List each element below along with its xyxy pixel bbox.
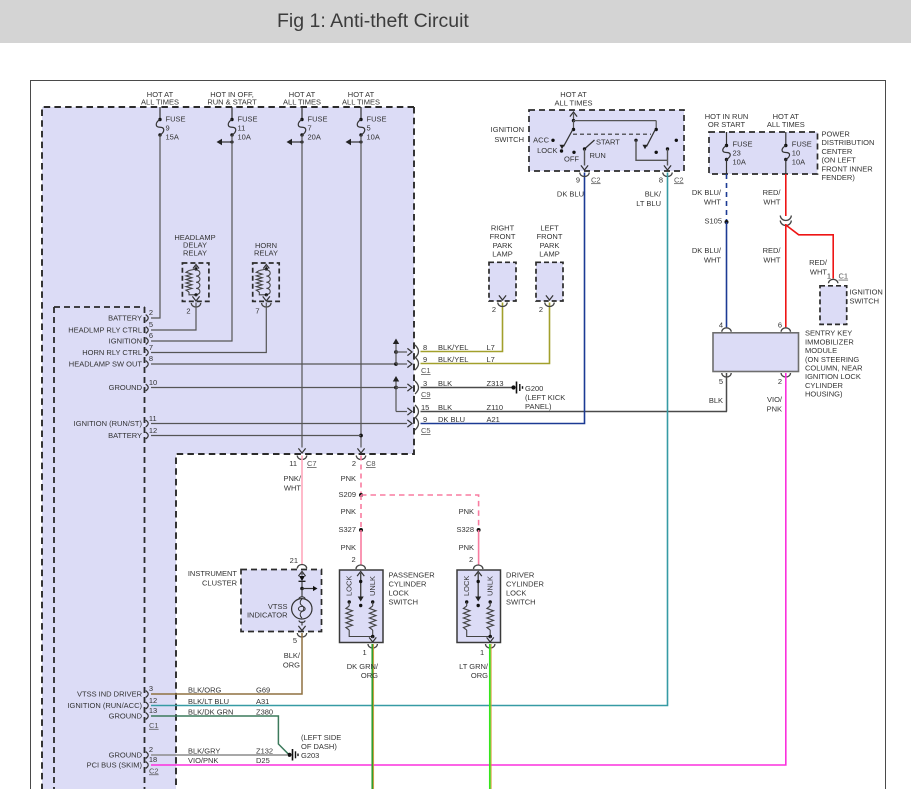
BCM pin 13 GROUND (C1) xyxy=(146,713,149,720)
svg-text:PCI BUS (SKIM): PCI BUS (SKIM) xyxy=(87,761,143,770)
svg-text:2: 2 xyxy=(149,308,153,317)
relay pin 2 connector xyxy=(191,303,200,307)
svg-text:11: 11 xyxy=(289,459,297,468)
svg-text:DK BLU/: DK BLU/ xyxy=(692,246,722,255)
svg-text:C9: C9 xyxy=(421,390,431,399)
svg-text:WHT: WHT xyxy=(763,198,780,207)
BCM pin 2 BATTERY xyxy=(146,315,149,322)
svg-text:DK BLU: DK BLU xyxy=(557,189,584,198)
svg-text:CYLINDER: CYLINDER xyxy=(805,381,844,390)
wire RED/WHT branch to ignition lock cylinder xyxy=(786,225,833,279)
svg-text:ALL TIMES: ALL TIMES xyxy=(555,98,593,107)
svg-text:CYLINDER: CYLINDER xyxy=(506,579,545,588)
svg-text:RED/: RED/ xyxy=(809,258,828,267)
svg-text:WHT: WHT xyxy=(704,198,721,207)
svg-text:OFF: OFF xyxy=(564,155,579,164)
passenger cylinder lock switch xyxy=(340,570,384,643)
svg-text:ALL TIMES: ALL TIMES xyxy=(283,98,321,107)
svg-text:BLK: BLK xyxy=(709,396,723,405)
fuse 7 20A xyxy=(301,107,303,120)
BCM pin 11 IGNITION (RUN/ST) xyxy=(146,420,149,427)
svg-text:3: 3 xyxy=(149,684,153,693)
svg-text:SENTRY KEY: SENTRY KEY xyxy=(805,329,852,338)
ignition switch internal wiring xyxy=(572,119,575,122)
svg-text:PNK: PNK xyxy=(341,507,356,516)
svg-text:IGNITION: IGNITION xyxy=(109,337,142,346)
svg-text:RIGHT: RIGHT xyxy=(491,223,515,232)
BCM pin 3 VTSS IND DRIVER xyxy=(146,691,149,698)
wire BLK/YEL right park lamp xyxy=(421,303,503,352)
sentry key immobilizer module xyxy=(713,333,799,372)
svg-text:PNK: PNK xyxy=(459,543,474,552)
svg-text:7: 7 xyxy=(255,306,259,315)
svg-text:RUN: RUN xyxy=(590,151,606,160)
svg-text:S105: S105 xyxy=(704,217,722,226)
svg-text:7: 7 xyxy=(149,343,153,352)
wire PNK S209 to S328 (dashed) xyxy=(361,495,479,529)
svg-text:LT BLU: LT BLU xyxy=(636,199,661,208)
svg-text:VIO/: VIO/ xyxy=(767,395,783,404)
svg-text:LAMP: LAMP xyxy=(539,249,559,258)
wire fuse 7 to connector C7 xyxy=(301,135,303,448)
svg-text:23: 23 xyxy=(733,149,741,158)
sentry pin 6 xyxy=(781,328,790,332)
svg-text:C1: C1 xyxy=(421,366,431,375)
wire IGNITION (RUN/ST) to connector C5 xyxy=(151,423,407,425)
svg-text:HORN RLY CTRL: HORN RLY CTRL xyxy=(82,348,142,357)
connector row 9 BLK/YEL L7 (C1) xyxy=(415,357,419,370)
svg-text:ORG: ORG xyxy=(361,671,378,680)
wire HEADLAMP SW OUT to connectors 8 and 9 xyxy=(151,363,396,365)
wire DK BLU/WHT S105 to sentry pin 4 xyxy=(726,222,728,327)
svg-text:POWER: POWER xyxy=(822,130,851,139)
svg-text:2: 2 xyxy=(469,555,473,564)
svg-text:1: 1 xyxy=(480,648,484,657)
sentry pin 2 xyxy=(781,373,790,377)
svg-text:HEADLAMP SW OUT: HEADLAMP SW OUT xyxy=(69,360,143,369)
wire PNK S209 to S327 (dashed) xyxy=(360,495,362,529)
svg-text:FENDER): FENDER) xyxy=(822,173,856,182)
svg-text:WHT: WHT xyxy=(763,256,780,265)
svg-text:1: 1 xyxy=(363,648,367,657)
svg-text:VTSS: VTSS xyxy=(268,602,288,611)
ignition switch (lock cylinder) xyxy=(820,286,847,325)
wire BATTERY pin12 to fuse 5 xyxy=(151,435,361,437)
svg-text:10A: 10A xyxy=(367,133,380,142)
wire BLK/DK GRN Z380 to G203 xyxy=(151,716,289,755)
title bar xyxy=(0,0,911,43)
svg-text:(LEFT KICK: (LEFT KICK xyxy=(525,393,565,402)
svg-text:C1: C1 xyxy=(149,721,159,730)
svg-text:PNK/: PNK/ xyxy=(283,474,301,483)
wire GROUND pin10 to connectors 3 and 15 xyxy=(151,387,396,389)
contact ACC xyxy=(551,139,554,142)
svg-text:LOCK: LOCK xyxy=(506,588,526,597)
power distribution center xyxy=(709,132,818,174)
svg-text:PNK: PNK xyxy=(341,474,356,483)
svg-text:RELAY: RELAY xyxy=(254,249,278,258)
svg-text:UNLK: UNLK xyxy=(486,576,495,596)
BCM pin 5 HEADLMP RLY CTRL xyxy=(146,327,149,334)
svg-text:S209: S209 xyxy=(338,490,356,499)
splice S327 xyxy=(359,528,363,532)
BCM pin 6 IGNITION xyxy=(146,338,149,345)
svg-text:RED/: RED/ xyxy=(763,246,782,255)
branch arrow fuse 11 xyxy=(218,141,232,143)
svg-text:8: 8 xyxy=(149,354,153,363)
wire BLK/ORG cluster pin5 to VTSS IND DRIVER xyxy=(151,633,302,694)
wire fuse 11 to IGNITION pin 6 xyxy=(151,135,232,341)
svg-text:G69: G69 xyxy=(256,686,270,695)
svg-text:FUSE: FUSE xyxy=(308,115,328,124)
svg-text:21: 21 xyxy=(290,556,298,565)
svg-text:WHT: WHT xyxy=(284,484,301,493)
BCM pin 2 GROUND xyxy=(146,752,149,759)
svg-text:4: 4 xyxy=(719,320,723,329)
wire fuse 5 to connector C8 xyxy=(360,135,362,448)
splice S328 xyxy=(477,528,481,532)
svg-text:10A: 10A xyxy=(792,158,805,167)
svg-text:A31: A31 xyxy=(256,697,269,706)
VTSS indicator xyxy=(298,572,305,577)
fuse 5 10A xyxy=(360,107,362,120)
svg-text:INSTRUMENT: INSTRUMENT xyxy=(188,569,238,578)
svg-text:6: 6 xyxy=(149,331,153,340)
svg-text:C2: C2 xyxy=(674,175,684,184)
svg-text:SWITCH: SWITCH xyxy=(506,597,536,606)
svg-text:LEFT: LEFT xyxy=(540,223,559,232)
svg-text:BATTERY: BATTERY xyxy=(108,431,142,440)
BCM pin 12 BATTERY xyxy=(146,432,149,439)
svg-text:FRONT: FRONT xyxy=(537,232,563,241)
svg-text:START: START xyxy=(596,138,620,147)
svg-text:RELAY: RELAY xyxy=(183,248,207,257)
connector row 15 BLK Z110 xyxy=(415,405,419,418)
svg-text:10A: 10A xyxy=(733,158,746,167)
svg-text:GROUND: GROUND xyxy=(109,712,143,721)
svg-text:5: 5 xyxy=(149,320,153,329)
svg-text:9: 9 xyxy=(166,124,170,133)
contact LOCK xyxy=(560,149,563,152)
svg-text:D25: D25 xyxy=(256,756,270,765)
horn relay pin 7 connector xyxy=(262,303,271,307)
wire BLK sentry pin5 to Z110 xyxy=(726,373,728,412)
svg-text:7: 7 xyxy=(308,124,312,133)
driver cylinder lock switch xyxy=(457,570,501,643)
svg-text:VTSS IND DRIVER: VTSS IND DRIVER xyxy=(77,690,143,699)
svg-text:G203: G203 xyxy=(301,751,319,760)
svg-text:C1: C1 xyxy=(839,272,849,281)
fuse 9 15A xyxy=(159,107,161,120)
svg-text:FRONT: FRONT xyxy=(490,232,516,241)
svg-text:FUSE: FUSE xyxy=(792,140,812,149)
svg-text:6: 6 xyxy=(778,320,782,329)
svg-text:5: 5 xyxy=(719,377,723,386)
wire BLK/GRY Z132 to G203 xyxy=(151,754,287,756)
ignition switch pin 8 connector C2 xyxy=(663,173,672,177)
wire BLK/YEL left park lamp xyxy=(421,303,550,364)
wire DK BLU A21 to ignition switch pin 9 xyxy=(421,173,585,424)
svg-text:CLUSTER: CLUSTER xyxy=(202,579,238,588)
svg-text:LAMP: LAMP xyxy=(492,249,512,258)
svg-text:ORG: ORG xyxy=(471,671,488,680)
junction block (dashed enclosure) xyxy=(42,107,414,454)
svg-text:C2: C2 xyxy=(591,175,601,184)
svg-text:OR START: OR START xyxy=(708,120,746,129)
svg-text:DRIVER: DRIVER xyxy=(506,570,535,579)
svg-text:LOCK: LOCK xyxy=(462,576,471,596)
svg-text:WHT: WHT xyxy=(704,256,721,265)
wire LT GRN/ORG driver switch pin 1 xyxy=(490,644,492,789)
svg-text:5: 5 xyxy=(293,636,297,645)
svg-text:PASSENGER: PASSENGER xyxy=(389,570,436,579)
right contacts xyxy=(634,139,637,142)
svg-text:11: 11 xyxy=(149,414,157,423)
svg-text:LOCK: LOCK xyxy=(537,146,557,155)
connector C8 pin 2 xyxy=(356,456,365,460)
svg-text:MODULE: MODULE xyxy=(805,346,837,355)
svg-text:HOUSING): HOUSING) xyxy=(805,390,843,399)
svg-text:OF DASH): OF DASH) xyxy=(301,742,337,751)
inline connector on RED/WHT xyxy=(780,216,791,226)
fuse 23 10A xyxy=(726,132,728,146)
svg-text:15A: 15A xyxy=(166,133,179,142)
svg-text:ACC: ACC xyxy=(533,136,549,145)
svg-text:FRONT INNER: FRONT INNER xyxy=(822,164,874,173)
svg-text:9: 9 xyxy=(576,175,580,184)
svg-text:IGNITION (RUN/ST): IGNITION (RUN/ST) xyxy=(74,419,143,428)
svg-text:BLK/ORG: BLK/ORG xyxy=(188,686,222,695)
svg-text:GROUND: GROUND xyxy=(109,751,143,760)
right lever xyxy=(647,130,656,147)
svg-text:5: 5 xyxy=(367,124,371,133)
contact START / RUN xyxy=(585,140,595,149)
wire BLK Z313 to G200 xyxy=(421,387,513,389)
svg-text:BLK/LT BLU: BLK/LT BLU xyxy=(188,697,229,706)
svg-text:DK BLU/: DK BLU/ xyxy=(692,188,722,197)
ignition switch pin 9 connector C2 xyxy=(580,173,589,177)
svg-text:C8: C8 xyxy=(366,459,376,468)
wire BLK/LT BLU pin8 to BCM IGNITION (RUN/ACC) xyxy=(151,173,668,706)
svg-text:RUN & START: RUN & START xyxy=(207,98,257,107)
wire VIO/PNK sentry pin2 to PCI BUS (SKIM) xyxy=(151,373,786,765)
wire PNK/WHT C7 to instrument cluster pin 21 xyxy=(301,456,303,565)
svg-text:IGNITION: IGNITION xyxy=(491,125,524,134)
ground G200 xyxy=(511,385,515,389)
svg-text:2: 2 xyxy=(186,306,190,315)
svg-text:BLK/: BLK/ xyxy=(645,189,662,198)
svg-text:C5: C5 xyxy=(421,426,431,435)
svg-text:13: 13 xyxy=(149,706,157,715)
svg-text:S328: S328 xyxy=(456,525,474,534)
cluster pin 5 xyxy=(297,633,306,637)
svg-text:RED/: RED/ xyxy=(763,188,782,197)
wire headlamp relay pin2 to HEADLMP RLY CTRL xyxy=(151,303,196,331)
ground G203 xyxy=(287,753,291,757)
connector row 8 BLK/YEL L7 xyxy=(415,345,419,358)
left lever (LOCK) xyxy=(564,130,573,147)
connector row 3 BLK Z313 (C9) xyxy=(415,381,419,394)
fuse 11 10A xyxy=(231,107,233,120)
wire horn relay pin7 to HORN RLY CTRL xyxy=(151,303,266,353)
branch arrow fuse 5 xyxy=(347,141,361,143)
contact OFF xyxy=(572,151,575,154)
svg-text:IGNITION LOCK: IGNITION LOCK xyxy=(805,372,861,381)
svg-text:(ON STEERING: (ON STEERING xyxy=(805,355,859,364)
sentry pin 4 xyxy=(722,328,731,332)
svg-text:INDICATOR: INDICATOR xyxy=(247,611,288,620)
svg-text:HEADLMP RLY CTRL: HEADLMP RLY CTRL xyxy=(68,326,142,335)
svg-text:G200: G200 xyxy=(525,384,543,393)
fuse 10 10A xyxy=(785,132,787,146)
svg-text:UNLK: UNLK xyxy=(368,576,377,596)
cluster pin 21 xyxy=(297,565,306,569)
wire RED/WHT to sentry pin 6 xyxy=(785,224,787,327)
wire DK BLU/WHT fuse 23 to S105 (dashed) xyxy=(726,174,728,221)
svg-text:PNK: PNK xyxy=(341,543,356,552)
svg-text:FUSE: FUSE xyxy=(238,115,258,124)
svg-text:2: 2 xyxy=(778,377,782,386)
svg-text:PANEL): PANEL) xyxy=(525,402,552,411)
wire PNK S327 to passenger lock switch pin 2 xyxy=(360,530,362,565)
wire PNK S328 to driver lock switch pin 2 xyxy=(478,530,480,565)
connector C7 pin 11 xyxy=(297,456,306,460)
wire DK GRN/ORG passenger switch pin 1 xyxy=(373,644,375,789)
svg-text:WHT: WHT xyxy=(810,268,827,277)
svg-text:C2: C2 xyxy=(149,766,159,775)
BCM pin 8 HEADLAMP SW OUT xyxy=(146,361,149,368)
splice S209 xyxy=(359,493,363,497)
wire fuse 9 to BATTERY pin 2 xyxy=(151,135,160,318)
svg-text:S327: S327 xyxy=(338,525,356,534)
svg-text:DISTRIBUTION: DISTRIBUTION xyxy=(822,138,875,147)
svg-text:BATTERY: BATTERY xyxy=(108,314,142,323)
svg-text:(LEFT SIDE: (LEFT SIDE xyxy=(301,733,341,742)
svg-text:ALL TIMES: ALL TIMES xyxy=(141,98,179,107)
sentry pin 5 xyxy=(722,373,731,377)
svg-text:18: 18 xyxy=(149,755,157,764)
svg-text:SWITCH: SWITCH xyxy=(389,597,419,606)
svg-text:PNK: PNK xyxy=(767,405,782,414)
svg-text:GROUND: GROUND xyxy=(109,383,143,392)
svg-text:11: 11 xyxy=(238,124,246,133)
svg-text:ALL TIMES: ALL TIMES xyxy=(767,120,805,129)
splice S105 xyxy=(725,220,729,224)
right switch wire to pin 8 xyxy=(636,140,668,160)
svg-text:10: 10 xyxy=(149,378,157,387)
svg-text:PNK: PNK xyxy=(459,507,474,516)
wire BLK Z110 to sentry key module pin 5 xyxy=(421,411,728,413)
svg-text:2: 2 xyxy=(352,555,356,564)
svg-text:FUSE: FUSE xyxy=(733,140,753,149)
svg-text:20A: 20A xyxy=(308,133,321,142)
BCM pin 12 IGNITION (RUN/ACC) xyxy=(146,702,149,709)
svg-text:FUSE: FUSE xyxy=(166,115,186,124)
svg-text:VIO/PNK: VIO/PNK xyxy=(188,756,218,765)
svg-text:LT GRN/: LT GRN/ xyxy=(459,662,489,671)
svg-text:ORG: ORG xyxy=(283,661,300,670)
svg-text:12: 12 xyxy=(149,696,157,705)
svg-text:2: 2 xyxy=(492,305,496,314)
wire RUN to pin 9 xyxy=(584,149,586,166)
svg-text:FUSE: FUSE xyxy=(367,115,387,124)
svg-text:LOCK: LOCK xyxy=(389,588,409,597)
svg-text:DK GRN/: DK GRN/ xyxy=(347,662,379,671)
svg-text:COLUMN, NEAR: COLUMN, NEAR xyxy=(805,364,863,373)
svg-text:12: 12 xyxy=(149,426,157,435)
svg-text:SWITCH: SWITCH xyxy=(494,135,524,144)
BCM pin 7 HORN RLY CTRL xyxy=(146,349,149,356)
svg-text:C7: C7 xyxy=(307,459,317,468)
wire PNK C8 to S209 (dashed) xyxy=(360,456,362,495)
branch arrow fuse 7 xyxy=(288,141,302,143)
connector row 9 DK BLU A21 (C5) xyxy=(415,417,419,430)
svg-text:8: 8 xyxy=(659,175,663,184)
svg-text:LOCK: LOCK xyxy=(345,576,354,596)
svg-text:2: 2 xyxy=(352,459,356,468)
body control module (inner dashed box) xyxy=(54,307,145,789)
svg-text:2: 2 xyxy=(539,305,543,314)
junction fuse5 battery12 xyxy=(359,434,363,438)
BCM pin 18 PCI BUS (SKIM) (C2) xyxy=(146,762,149,769)
svg-text:BLK/: BLK/ xyxy=(284,651,301,660)
svg-text:ALL TIMES: ALL TIMES xyxy=(342,98,380,107)
svg-text:SWITCH: SWITCH xyxy=(850,296,880,305)
svg-text:IMMOBILIZER: IMMOBILIZER xyxy=(805,337,854,346)
svg-text:IGNITION: IGNITION xyxy=(850,287,883,296)
svg-text:CENTER: CENTER xyxy=(822,147,853,156)
wire RED/WHT fuse 10 to inline connector xyxy=(785,174,787,216)
svg-text:10A: 10A xyxy=(238,133,251,142)
svg-text:10: 10 xyxy=(792,149,800,158)
BCM pin 10 GROUND xyxy=(146,384,149,391)
svg-text:IGNITION (RUN/ACC): IGNITION (RUN/ACC) xyxy=(67,701,142,710)
svg-text:CYLINDER: CYLINDER xyxy=(389,579,428,588)
svg-text:2: 2 xyxy=(149,745,153,754)
